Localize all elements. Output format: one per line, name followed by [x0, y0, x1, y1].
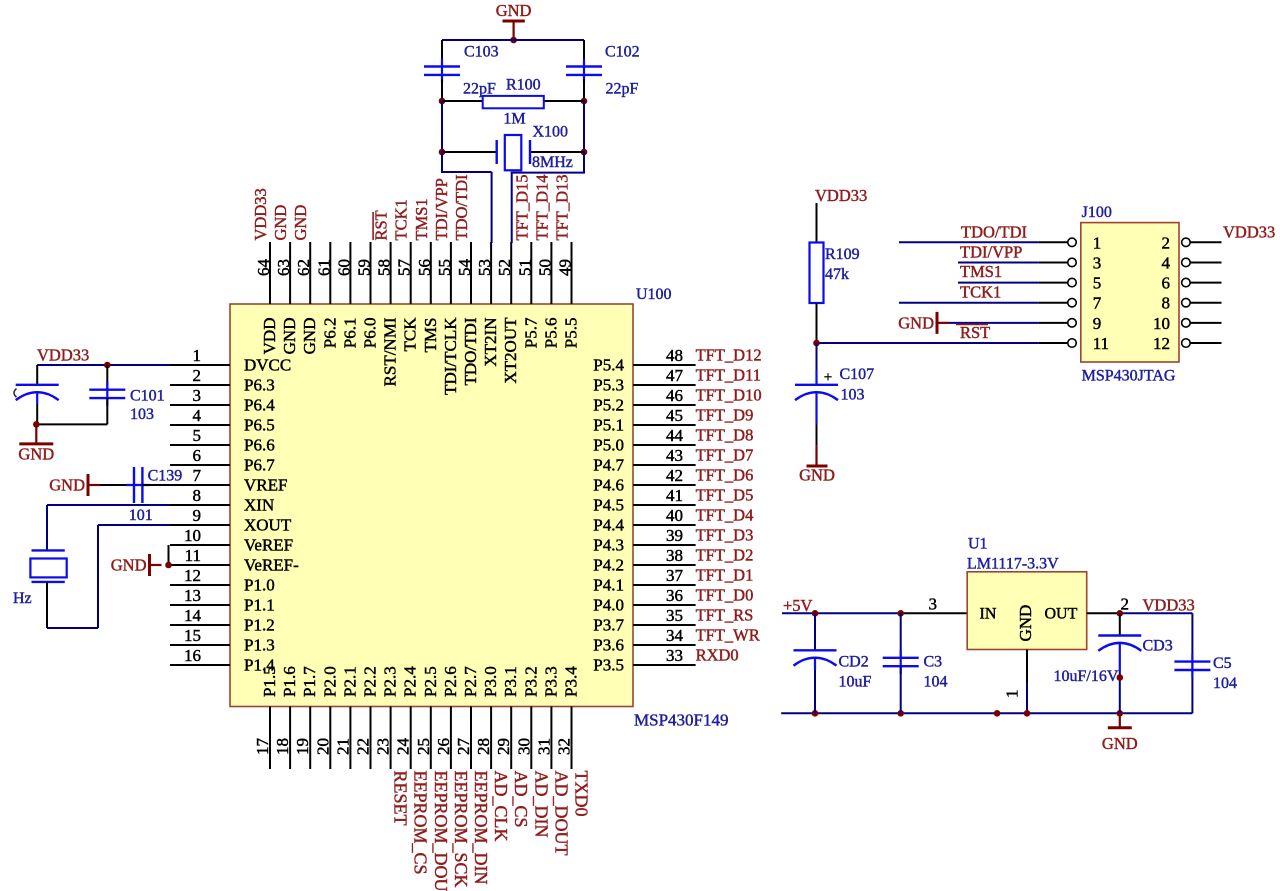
svg-text:15: 15 [184, 626, 201, 645]
svg-text:P3.0: P3.0 [481, 666, 500, 697]
svg-text:GND: GND [1102, 734, 1138, 753]
svg-text:EEPROM_DOUT: EEPROM_DOUT [431, 771, 451, 891]
svg-text:TFT_D3: TFT_D3 [696, 526, 754, 545]
svg-text:101: 101 [129, 507, 153, 524]
svg-text:14: 14 [184, 606, 202, 625]
svg-text:TFT_WR: TFT_WR [696, 626, 760, 645]
svg-text:C107: C107 [840, 366, 875, 383]
svg-text:C5: C5 [1213, 655, 1232, 672]
svg-text:P2.4: P2.4 [401, 666, 420, 697]
svg-text:8: 8 [1162, 294, 1171, 313]
svg-text:RESET: RESET [391, 771, 411, 826]
svg-text:39: 39 [666, 526, 683, 545]
svg-text:P6.0: P6.0 [361, 318, 380, 349]
svg-text:GND: GND [799, 466, 835, 485]
svg-text:P5.0: P5.0 [593, 436, 624, 455]
svg-text:P5.6: P5.6 [541, 318, 560, 349]
svg-text:EEPROM_DIN: EEPROM_DIN [471, 771, 491, 885]
svg-text:XIN: XIN [244, 496, 274, 515]
svg-text:C101: C101 [130, 387, 165, 404]
svg-text:TCK1: TCK1 [960, 283, 1001, 302]
svg-text:TCK1: TCK1 [392, 199, 411, 240]
svg-text:28: 28 [474, 738, 493, 755]
svg-text:P5.4: P5.4 [593, 356, 624, 375]
svg-text:P3.3: P3.3 [541, 666, 560, 697]
svg-text:53: 53 [475, 259, 494, 276]
svg-text:31: 31 [534, 738, 553, 755]
svg-text:P5.7: P5.7 [521, 317, 540, 348]
svg-text:P5.3: P5.3 [593, 376, 624, 395]
svg-text:AD_CS: AD_CS [511, 771, 531, 828]
svg-text:OUT: OUT [1045, 606, 1078, 623]
svg-text:VDD33: VDD33 [37, 346, 89, 365]
svg-text:37: 37 [666, 566, 684, 585]
svg-text:DVCC: DVCC [244, 356, 291, 375]
svg-text:TFT_D15: TFT_D15 [512, 175, 531, 241]
svg-text:AD_DIN: AD_DIN [531, 771, 551, 838]
svg-text:48: 48 [666, 346, 683, 365]
svg-text:33: 33 [666, 646, 683, 665]
svg-text:XOUT: XOUT [244, 516, 292, 535]
svg-text:34: 34 [666, 626, 684, 645]
svg-text:P1.0: P1.0 [244, 576, 275, 595]
svg-text:VDD: VDD [260, 318, 279, 355]
svg-text:U1: U1 [968, 536, 988, 553]
svg-text:10uF: 10uF [839, 674, 872, 691]
svg-text:36: 36 [666, 586, 683, 605]
svg-text:GND: GND [496, 1, 532, 20]
svg-text:26: 26 [434, 738, 453, 755]
svg-text:47: 47 [666, 366, 684, 385]
svg-text:12: 12 [184, 566, 201, 585]
svg-text:104: 104 [1213, 675, 1237, 692]
svg-text:5: 5 [1093, 274, 1102, 293]
svg-text:P5.1: P5.1 [593, 416, 624, 435]
svg-text:VDD33: VDD33 [1223, 223, 1275, 242]
svg-text:P6.6: P6.6 [244, 436, 275, 455]
svg-text:TXD0: TXD0 [572, 771, 592, 817]
svg-text:44: 44 [666, 426, 684, 445]
svg-text:P2.0: P2.0 [320, 666, 339, 697]
svg-text:VeREF-: VeREF- [244, 556, 299, 575]
svg-text:60: 60 [334, 259, 353, 276]
svg-text:P2.1: P2.1 [340, 666, 359, 697]
svg-text:11: 11 [1093, 334, 1109, 353]
svg-text:TFT_D9: TFT_D9 [696, 406, 754, 425]
svg-text:25: 25 [414, 738, 433, 755]
svg-text:104: 104 [924, 674, 948, 691]
svg-text:29: 29 [494, 738, 513, 755]
svg-text:7: 7 [1093, 294, 1102, 313]
svg-text:TDI/TCLK: TDI/TCLK [441, 317, 460, 395]
svg-text:TMS: TMS [421, 318, 440, 353]
svg-text:TFT_D7: TFT_D7 [696, 446, 754, 465]
svg-text:TDI/VPP: TDI/VPP [960, 243, 1022, 262]
svg-text:59: 59 [355, 259, 374, 276]
svg-text:VDD33: VDD33 [251, 188, 270, 240]
svg-text:P4.2: P4.2 [593, 556, 624, 575]
svg-text:Hz: Hz [13, 590, 32, 607]
svg-text:P4.6: P4.6 [593, 476, 624, 495]
svg-text:TFT_D13: TFT_D13 [553, 175, 572, 241]
svg-text:57: 57 [395, 259, 414, 277]
svg-text:P3.2: P3.2 [521, 666, 540, 697]
svg-text:6: 6 [1162, 274, 1171, 293]
svg-text:19: 19 [293, 738, 312, 755]
svg-text:VeREF: VeREF [244, 536, 293, 555]
svg-text:RST/NMI: RST/NMI [381, 317, 400, 386]
svg-text:C102: C102 [605, 44, 640, 61]
svg-text:P1.7: P1.7 [300, 666, 319, 697]
svg-text:TFT_D5: TFT_D5 [696, 486, 754, 505]
svg-text:47k: 47k [825, 266, 849, 283]
svg-text:+: + [824, 370, 832, 386]
svg-text:P2.7: P2.7 [461, 666, 480, 697]
svg-text:10: 10 [1153, 314, 1170, 333]
svg-text:RST: RST [960, 323, 990, 342]
svg-text:RXD0: RXD0 [696, 646, 739, 665]
svg-text:XT2OUT: XT2OUT [501, 317, 520, 384]
svg-text:P1.1: P1.1 [244, 596, 275, 615]
svg-text:TDO/TDI: TDO/TDI [961, 223, 1027, 242]
svg-text:GND: GND [271, 205, 290, 241]
svg-text:TFT_D6: TFT_D6 [696, 466, 754, 485]
svg-text:1: 1 [193, 346, 202, 365]
svg-text:GND: GND [1016, 605, 1035, 642]
svg-text:52: 52 [495, 259, 514, 276]
svg-text:GND: GND [291, 205, 310, 241]
svg-text:P4.7: P4.7 [593, 456, 624, 475]
svg-text:TCK: TCK [401, 317, 420, 352]
svg-text:C139: C139 [148, 468, 183, 485]
svg-text:1M: 1M [503, 111, 525, 128]
svg-text:27: 27 [454, 738, 473, 756]
svg-text:10: 10 [184, 526, 201, 545]
svg-text:P2.6: P2.6 [441, 666, 460, 697]
svg-text:5: 5 [193, 426, 202, 445]
svg-text:GND: GND [49, 476, 85, 495]
svg-text:GND: GND [111, 556, 147, 575]
svg-text:TDO/TDI: TDO/TDI [461, 317, 480, 385]
svg-text:32: 32 [555, 738, 574, 755]
svg-text:7: 7 [193, 466, 202, 485]
svg-text:VDD33: VDD33 [1143, 596, 1195, 615]
svg-text:9: 9 [193, 506, 202, 525]
svg-text:18: 18 [273, 738, 292, 755]
svg-text:TFT_D10: TFT_D10 [696, 386, 762, 405]
svg-text:R109: R109 [825, 246, 860, 263]
svg-text:6: 6 [193, 446, 202, 465]
svg-text:CD2: CD2 [839, 654, 869, 671]
svg-text:21: 21 [333, 738, 352, 755]
svg-text:P1.5: P1.5 [260, 666, 279, 697]
svg-text:P1.3: P1.3 [244, 636, 275, 655]
svg-text:35: 35 [666, 606, 683, 625]
svg-text:+5V: +5V [783, 596, 813, 615]
svg-text:1: 1 [1003, 690, 1022, 699]
svg-text:AD_DOUT: AD_DOUT [551, 771, 571, 856]
svg-text:TMS1: TMS1 [960, 262, 1002, 281]
svg-text:103: 103 [841, 387, 865, 404]
svg-text:42: 42 [666, 466, 683, 485]
svg-text:TFT_D0: TFT_D0 [696, 586, 754, 605]
svg-text:P4.4: P4.4 [593, 516, 624, 535]
svg-text:38: 38 [666, 546, 683, 565]
svg-text:TFT_RS: TFT_RS [696, 606, 754, 625]
svg-text:40: 40 [666, 506, 683, 525]
svg-text:P6.1: P6.1 [340, 318, 359, 349]
svg-text:C103: C103 [464, 44, 499, 61]
svg-text:P2.2: P2.2 [361, 666, 380, 697]
svg-text:22pF: 22pF [606, 81, 639, 98]
svg-text:62: 62 [294, 259, 313, 276]
svg-text:13: 13 [184, 586, 201, 605]
svg-text:GND: GND [300, 318, 319, 355]
svg-text:58: 58 [375, 259, 394, 276]
svg-text:P1.6: P1.6 [280, 666, 299, 697]
svg-text:61: 61 [314, 259, 333, 276]
svg-text:24: 24 [394, 738, 413, 756]
svg-text:TFT_D14: TFT_D14 [532, 175, 551, 241]
svg-text:P6.4: P6.4 [244, 396, 275, 415]
svg-text:4: 4 [1162, 253, 1171, 272]
svg-text:P6.2: P6.2 [320, 318, 339, 349]
svg-text:X100: X100 [533, 124, 569, 141]
svg-text:P2.5: P2.5 [421, 666, 440, 697]
svg-text:P2.3: P2.3 [381, 666, 400, 697]
svg-text:R100: R100 [506, 77, 541, 94]
svg-text:12: 12 [1153, 334, 1170, 353]
svg-text:P4.1: P4.1 [593, 576, 624, 595]
svg-text:P1.2: P1.2 [244, 616, 275, 635]
svg-text:VDD33: VDD33 [815, 186, 867, 205]
svg-text:GND: GND [898, 313, 934, 332]
svg-text:41: 41 [666, 486, 683, 505]
svg-text:TFT_D1: TFT_D1 [696, 566, 754, 585]
svg-text:43: 43 [666, 446, 683, 465]
svg-text:22: 22 [354, 738, 373, 755]
svg-text:U100: U100 [636, 286, 672, 303]
svg-text:20: 20 [313, 738, 332, 755]
svg-text:17: 17 [253, 738, 272, 756]
svg-text:3: 3 [1093, 253, 1102, 272]
svg-text:49: 49 [556, 259, 575, 276]
svg-text:TDI/VPP: TDI/VPP [432, 178, 451, 240]
svg-text:EEPROM_SCK: EEPROM_SCK [451, 771, 471, 888]
svg-text:P3.5: P3.5 [593, 656, 624, 675]
svg-text:EEPROM_CS: EEPROM_CS [411, 771, 431, 875]
svg-text:TFT_D8: TFT_D8 [696, 426, 754, 445]
svg-text:22pF: 22pF [463, 81, 496, 98]
svg-text:TFT_D2: TFT_D2 [696, 546, 754, 565]
svg-text:LM1117-3.3V: LM1117-3.3V [967, 556, 1059, 573]
svg-text:TFT_D12: TFT_D12 [696, 346, 762, 365]
svg-text:TFT_D11: TFT_D11 [696, 366, 761, 385]
svg-text:CD3: CD3 [1143, 638, 1173, 655]
svg-text:TFT_D4: TFT_D4 [696, 506, 754, 525]
svg-text:64: 64 [254, 259, 273, 277]
svg-text:TDO/TDI: TDO/TDI [452, 175, 471, 241]
svg-text:P5.5: P5.5 [562, 318, 581, 349]
svg-text:GND: GND [18, 444, 54, 463]
svg-text:3: 3 [193, 386, 202, 405]
svg-text:J100: J100 [1082, 204, 1112, 221]
svg-text:P6.3: P6.3 [244, 376, 275, 395]
svg-text:2: 2 [193, 366, 202, 385]
svg-text:1: 1 [1093, 233, 1102, 252]
svg-text:P3.1: P3.1 [501, 666, 520, 697]
svg-text:8: 8 [193, 486, 202, 505]
svg-text:2: 2 [1162, 233, 1171, 252]
svg-text:P6.5: P6.5 [244, 416, 275, 435]
svg-text:TMS1: TMS1 [412, 198, 431, 240]
svg-text:30: 30 [514, 738, 533, 755]
svg-text:P3.6: P3.6 [593, 636, 624, 655]
svg-text:50: 50 [535, 259, 554, 276]
svg-text:9: 9 [1093, 314, 1102, 333]
svg-text:51: 51 [515, 259, 534, 276]
svg-text:56: 56 [415, 259, 434, 276]
svg-text:P3.7: P3.7 [593, 616, 624, 635]
svg-text:10uF/16V: 10uF/16V [1054, 668, 1119, 685]
svg-text:46: 46 [666, 386, 683, 405]
svg-text:P3.4: P3.4 [562, 666, 581, 697]
svg-text:8MHz: 8MHz [532, 154, 573, 171]
svg-text:45: 45 [666, 406, 683, 425]
svg-text:P4.0: P4.0 [593, 596, 624, 615]
svg-text:16: 16 [184, 646, 201, 665]
svg-text:4: 4 [193, 406, 202, 425]
svg-text:IN: IN [980, 606, 997, 623]
svg-text:P6.7: P6.7 [244, 456, 275, 475]
svg-text:54: 54 [455, 259, 474, 277]
svg-text:103: 103 [130, 406, 154, 423]
svg-text:RST: RST [372, 210, 391, 240]
svg-text:3: 3 [929, 595, 938, 614]
svg-text:AD_CLK: AD_CLK [491, 771, 511, 842]
svg-text:63: 63 [274, 259, 293, 276]
svg-text:MSP430F149: MSP430F149 [634, 711, 728, 730]
svg-text:P4.3: P4.3 [593, 536, 624, 555]
svg-text:VREF: VREF [244, 476, 287, 495]
svg-text:XT2IN: XT2IN [481, 318, 500, 367]
svg-text:11: 11 [185, 546, 201, 565]
svg-text:P5.2: P5.2 [593, 396, 624, 415]
svg-text:MSP430JTAG: MSP430JTAG [1082, 368, 1176, 385]
svg-text:2: 2 [1121, 595, 1130, 614]
svg-text:GND: GND [280, 318, 299, 355]
svg-text:23: 23 [374, 738, 393, 755]
svg-text:C3: C3 [924, 654, 943, 671]
svg-text:P4.5: P4.5 [593, 496, 624, 515]
svg-text:55: 55 [435, 259, 454, 276]
